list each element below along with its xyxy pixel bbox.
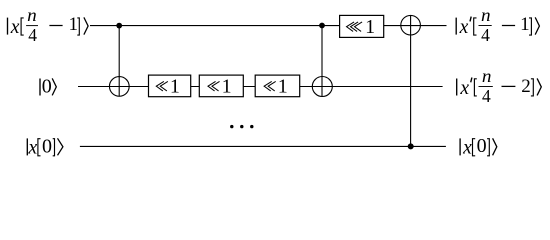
open bracket [ (38, 139, 41, 156)
svg-text:4: 4 (28, 25, 37, 45)
close bracket ] (53, 139, 55, 156)
minus sign (502, 25, 515, 27)
wire vertical link CNOT2 (q0 control to q1 target) (321, 26, 323, 97)
ket bar | (39, 79, 41, 96)
target oplus CNOT1 on q1 (109, 77, 129, 97)
svg-text:0: 0 (42, 76, 52, 98)
node label q0 right: ket |x'[n/4-1]> (456, 5, 539, 45)
minus sign (49, 25, 62, 27)
wire q2 (bottom qubit rail) (80, 145, 446, 147)
svg-text:n: n (481, 5, 491, 25)
close bracket ] (77, 18, 79, 35)
svg-text:1: 1 (520, 14, 530, 35)
ket angle > (493, 138, 497, 155)
svg-text:4: 4 (481, 25, 490, 45)
gate U2 chevron glyph "much-less-than" (208, 81, 216, 91)
ket angle > (84, 17, 88, 34)
svg-text:x: x (462, 138, 472, 159)
svg-text:n: n (27, 5, 37, 25)
target oplus CNOT2 on q1 (312, 77, 332, 97)
gate U4 chevron glyph "very-much-less-than" (347, 22, 355, 32)
fraction bar (26, 25, 38, 27)
open bracket [ (473, 139, 476, 156)
gate U3 box "&#171;1" (shift left) on q1 (255, 75, 300, 97)
wire q0 (top qubit rail) (90, 25, 447, 27)
minus sign (502, 85, 516, 87)
svg-text:x: x (459, 78, 469, 99)
svg-text:0: 0 (42, 135, 52, 157)
gate U4 box "&#8920;1" (triple shift left) on q0 (340, 15, 384, 38)
node label q1 left: ket |0> (40, 76, 56, 98)
close bracket ] (531, 79, 533, 96)
ket angle > (58, 138, 63, 155)
ket bar | (455, 18, 457, 35)
close bracket ] (487, 139, 489, 156)
wire vertical link CNOT3 (q2 control to q0 target, crosses q1) (410, 15, 412, 146)
gate U1 chevron glyph "much-less-than" (156, 81, 164, 91)
ket bar | (459, 138, 461, 155)
svg-text:n: n (482, 66, 492, 86)
control dot CNOT3 on q2 (junction with q2 rail) (408, 143, 414, 149)
svg-text:2: 2 (521, 76, 531, 97)
node label q0 left: ket |x[n/4-1]> (8, 5, 89, 45)
ket bar | (7, 18, 9, 35)
svg-text:4: 4 (482, 86, 491, 106)
ket angle > (535, 17, 539, 34)
ket angle > (52, 78, 56, 95)
ket angle > (537, 78, 541, 95)
fraction bar (479, 25, 492, 27)
ket bar | (456, 79, 458, 96)
open bracket [ (474, 18, 477, 35)
ket bar | (26, 138, 28, 155)
control dot CNOT1 on q0 (116, 23, 122, 29)
open bracket [ (474, 79, 476, 96)
svg-text:1: 1 (170, 76, 180, 98)
node label q2 right: ket |x[0]> (460, 135, 497, 159)
gate U3 chevron glyph "much-less-than" (264, 81, 272, 91)
svg-text:x: x (10, 17, 20, 38)
svg-text:0: 0 (477, 135, 487, 157)
svg-text:1: 1 (365, 16, 375, 38)
close bracket ] (529, 18, 531, 35)
prime mark (470, 17, 471, 22)
target oplus CNOT3 on q0 (401, 15, 421, 35)
svg-text:x: x (27, 138, 37, 159)
node label q2 left: ket |x[0]> (27, 135, 63, 158)
control dot CNOT2 on q0 (319, 23, 325, 29)
node label q1 right: ket |x'[n/4-2]> (457, 66, 542, 106)
wire vertical link CNOT1 (q0 control to q1 target) (118, 26, 120, 97)
svg-text:x: x (459, 17, 469, 38)
fraction bar (479, 86, 493, 88)
gate U2 box "&#171;1" (shift left) on q1 (199, 75, 243, 97)
prime mark (471, 78, 472, 83)
gate U1 box "&#171;1" (shift left) on q1 (149, 75, 191, 97)
cdots ellipsis (elided qubits between q1 and q2) (230, 125, 253, 128)
svg-text:1: 1 (278, 76, 288, 98)
svg-text:1: 1 (222, 76, 232, 98)
svg-text:1: 1 (68, 14, 78, 35)
wire q1 (middle qubit rail) (78, 86, 443, 88)
open bracket [ (21, 18, 24, 35)
